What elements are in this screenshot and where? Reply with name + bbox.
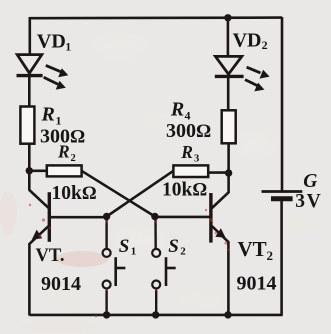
- svg-text:G: G: [303, 171, 317, 192]
- wire R4 top to VD2 cathode: [227, 77, 230, 111]
- svg-text:R: R: [57, 142, 70, 162]
- transistor VT1: [29, 190, 106, 244]
- node S1 bottom rail dot: [103, 311, 110, 318]
- svg-text:R: R: [170, 99, 184, 121]
- node C junction dot (VT1 base): [103, 213, 110, 220]
- node VT2 emitter rail dot: [224, 311, 231, 318]
- svg-text:1: 1: [131, 246, 137, 258]
- svg-text:VT: VT: [238, 237, 267, 261]
- svg-text:9014: 9014: [41, 273, 81, 295]
- wire node A to R2: [29, 170, 47, 173]
- wire R1 bottom to node A: [28, 143, 31, 171]
- svg-text:2: 2: [267, 248, 274, 263]
- svg-text:R: R: [41, 104, 55, 126]
- LED VD1: [17, 55, 43, 76]
- svg-text:S: S: [119, 236, 130, 257]
- battery G: [262, 192, 303, 199]
- svg-text:9014: 9014: [237, 273, 277, 295]
- svg-text:VD: VD: [233, 30, 262, 52]
- resistor R3: [173, 165, 208, 177]
- wire battery bottom to bottom rail: [280, 201, 283, 316]
- wire right branch battery top: [281, 17, 284, 191]
- svg-text:VT.: VT.: [36, 246, 65, 266]
- resistor R2: [47, 165, 82, 176]
- svg-text:1: 1: [65, 40, 71, 54]
- node B junction dot (VT2 base): [151, 213, 158, 220]
- wire left branch top: [28, 17, 31, 55]
- wire R3 to node C diagonal: [107, 171, 174, 217]
- svg-text:300Ω: 300Ω: [166, 120, 211, 142]
- wire VT1 collector vertical: [28, 171, 31, 191]
- node top junction dot: [224, 14, 231, 21]
- resistor R1: [20, 107, 34, 144]
- wire bottom rail: [30, 314, 283, 317]
- wire VD2 anode to top rail: [227, 18, 230, 58]
- svg-text:2: 2: [262, 38, 268, 52]
- svg-text:2: 2: [180, 246, 186, 258]
- transistor VT2: [155, 173, 229, 315]
- VD2 light arrow 2: [245, 80, 264, 92]
- svg-text:3 V: 3 V: [295, 191, 320, 212]
- wire node D to R4: [227, 143, 230, 173]
- resistor R4: [222, 110, 236, 143]
- wire R3 right to node D: [208, 171, 229, 174]
- switch S2: [152, 217, 176, 316]
- node A junction dot: [26, 167, 33, 174]
- svg-text:10kΩ: 10kΩ: [52, 183, 97, 204]
- svg-text:2: 2: [71, 153, 76, 164]
- wire R2 to node B diagonal: [82, 171, 155, 217]
- svg-text:R: R: [180, 142, 193, 162]
- VD1 light arrow 1: [46, 65, 69, 77]
- svg-text:3: 3: [194, 154, 199, 165]
- LED VD2: [215, 56, 244, 76]
- wire VT1 emitter down to bottom rail: [28, 243, 31, 316]
- node S2 bottom rail dot: [152, 311, 159, 318]
- svg-text:10kΩ: 10kΩ: [162, 180, 207, 201]
- wire VD1 cathode to R1: [28, 76, 31, 107]
- VD1 light arrow 2: [44, 77, 66, 89]
- VD2 light arrow 1: [247, 67, 270, 78]
- wire top rail: [30, 16, 283, 19]
- red scan speck marks: [29, 204, 230, 318]
- node D junction dot: [225, 169, 232, 176]
- switch S1: [103, 217, 126, 316]
- svg-text:S: S: [168, 236, 179, 257]
- svg-text:VD: VD: [37, 31, 66, 53]
